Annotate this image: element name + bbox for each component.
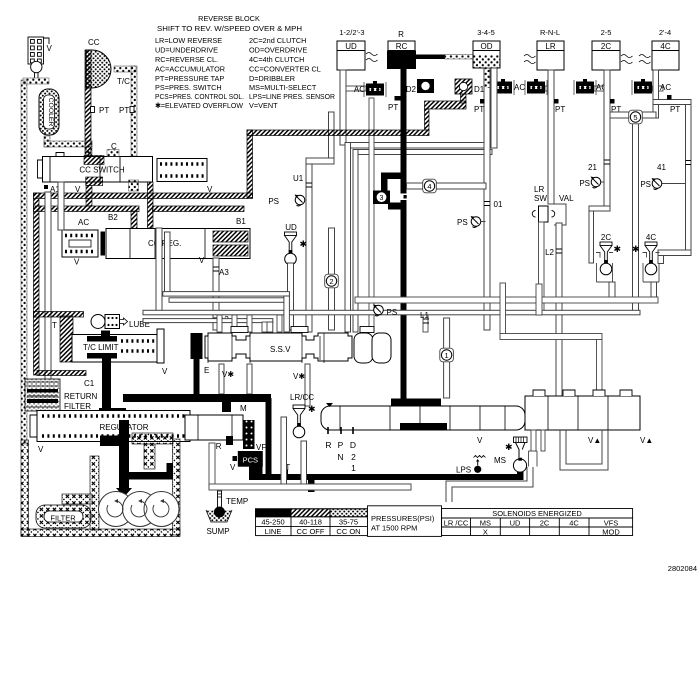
svg-text:FILTER: FILTER (64, 402, 91, 411)
svg-text:V: V (230, 463, 236, 472)
svg-text:PS=PRES. SWITCH: PS=PRES. SWITCH (155, 83, 222, 92)
svg-text:P: P (338, 440, 344, 450)
hatched rail B2 (131, 211, 137, 233)
pump (3 gerotors) (99, 492, 180, 527)
dotted line RC to OD (445, 55, 473, 60)
suction channel loop (x-dots) (21, 440, 29, 536)
hatched pieces at CC switch (84, 156, 104, 165)
wire stems to S.S.V (217, 315, 222, 332)
svg-text:PS: PS (640, 180, 651, 189)
manual valve (321, 403, 525, 434)
svg-text:5: 5 (633, 113, 637, 122)
thick main line bottom bar (249, 474, 523, 480)
svg-text:R: R (398, 30, 404, 39)
dribbler D1 (455, 79, 472, 94)
svg-text:V: V (207, 185, 213, 194)
svg-text:OD=OVERDRIVE: OD=OVERDRIVE (249, 46, 307, 55)
svg-text:V: V (74, 258, 80, 267)
sump SUMP (206, 510, 232, 522)
svg-text:2-5: 2-5 (601, 28, 612, 37)
svg-text:C1: C1 (84, 379, 95, 388)
return filter RETURN FILTER (25, 379, 60, 411)
svg-text:UD: UD (345, 42, 357, 51)
svg-text:CC OFF: CC OFF (297, 527, 325, 536)
valve CC SWITCH (38, 153, 208, 183)
svg-text:PS: PS (268, 197, 279, 206)
svg-text:PS: PS (457, 218, 468, 227)
svg-text:LR=LOW REVERSE: LR=LOW REVERSE (155, 36, 222, 45)
svg-text:45-250: 45-250 (261, 517, 284, 526)
svg-text:2C=2nd CLUTCH: 2C=2nd CLUTCH (249, 36, 306, 45)
hatched channel T/C limit frame (34, 312, 84, 318)
accumulator AC (4C) (632, 79, 654, 95)
svg-text:MS=MULTI-SELECT: MS=MULTI-SELECT (249, 83, 317, 92)
valve S.S.V (205, 327, 391, 364)
svg-text:✱: ✱ (614, 244, 622, 254)
svg-text:FILTER: FILTER (50, 514, 76, 523)
valve T/C LIMIT (72, 329, 164, 363)
valve rooster (right, castellated) (525, 390, 640, 430)
pressure switch PS (L1) (373, 305, 383, 316)
svg-text:PS: PS (387, 308, 398, 317)
svg-text:LR: LR (545, 42, 555, 51)
hatched left rail (34, 193, 40, 375)
pressure switch PS (41) (662, 183, 685, 185)
svg-text:V▲: V▲ (640, 436, 653, 445)
svg-text:LR/CC: LR/CC (290, 393, 314, 402)
solenoid M (222, 400, 231, 412)
svg-text:LR: LR (534, 185, 544, 194)
thermometer TEMP (214, 489, 248, 518)
channel 2C down (604, 70, 610, 207)
svg-text:PCS=PRES. CONTROL SOL.: PCS=PRES. CONTROL SOL. (155, 92, 244, 101)
wire channels right-mid (355, 297, 658, 303)
hatched channel main reverse rail (247, 130, 429, 136)
valve NR (185, 415, 243, 445)
circled 4 (407, 183, 424, 189)
svg-text:3-4-5: 3-4-5 (477, 28, 495, 37)
legend title REVERSE BLOCK (155, 14, 335, 110)
svg-text:VFS: VFS (604, 519, 619, 528)
U loop channel right (560, 430, 608, 470)
svg-text:D=DRIBBLER: D=DRIBBLER (249, 74, 295, 83)
svg-text:4C=4th CLUTCH: 4C=4th CLUTCH (249, 55, 304, 64)
svg-text:R-N-L: R-N-L (540, 28, 560, 37)
svg-text:R: R (325, 440, 331, 450)
pressure switch PS (21) (600, 181, 604, 183)
svg-text:PT: PT (474, 105, 484, 114)
svg-text:PCS: PCS (243, 456, 258, 465)
svg-text:SOLENOIDS ENERGIZED: SOLENOIDS ENERGIZED (492, 509, 582, 518)
orifice 5 link channel (610, 112, 656, 118)
channel UD down (340, 70, 346, 145)
svg-text:UD: UD (510, 519, 521, 528)
valve REGULATOR (30, 411, 190, 442)
svg-text:PT: PT (670, 105, 680, 114)
svg-text:D2: D2 (406, 85, 417, 94)
vent V top-left (28, 37, 49, 78)
circled 3 with thick loop (381, 173, 406, 180)
solenoid PCS (238, 451, 263, 467)
svg-text:UD: UD (285, 223, 297, 232)
svg-text:N: N (337, 452, 343, 462)
svg-text:V=VENT: V=VENT (249, 101, 278, 110)
svg-text:2C: 2C (601, 42, 611, 51)
hatched bar 2 (34, 206, 140, 212)
svg-text:40-118: 40-118 (299, 517, 322, 526)
svg-text:VF: VF (256, 443, 266, 452)
wire channels valve to MS (531, 430, 536, 451)
thick line C1 to pump (100, 436, 128, 447)
pressure switch PS (01) (481, 221, 486, 223)
channel 4C down (653, 70, 659, 118)
svg-text:AC: AC (78, 218, 89, 227)
hatched channel D1-D2 (461, 94, 467, 103)
valve CC REG (106, 229, 250, 259)
svg-text:RC: RC (396, 42, 408, 51)
accumulator glyph template (0, 0, 1, 1)
pressure tap PT (OD) (480, 99, 485, 104)
svg-text:T/C LIMIT: T/C LIMIT (83, 343, 119, 352)
svg-text:V✱: V✱ (222, 370, 234, 379)
middle bus channels (156, 228, 162, 314)
circled 1 (444, 318, 450, 349)
svg-text:RETURN: RETURN (64, 392, 98, 401)
svg-text:AC: AC (514, 83, 525, 92)
cooler line (dotted) from vent down (21, 80, 27, 444)
svg-text:PT: PT (99, 106, 109, 115)
table solenoids energized (442, 509, 633, 536)
svg-text:OD: OD (481, 42, 493, 51)
svg-text:2: 2 (329, 277, 333, 286)
svg-text:01: 01 (494, 200, 503, 209)
cooler outlet dotted channel (44, 136, 50, 147)
svg-text:L2: L2 (545, 248, 554, 257)
svg-text:MS: MS (480, 519, 491, 528)
svg-text:PT=PRESSURE TAP: PT=PRESSURE TAP (155, 74, 224, 83)
filter FILTER pod (36, 505, 91, 528)
svg-text:4C: 4C (569, 519, 579, 528)
svg-text:B1: B1 (236, 217, 246, 226)
svg-text:B2: B2 (108, 213, 118, 222)
svg-text:1: 1 (351, 463, 356, 473)
pressure switch PS (U1) (295, 195, 305, 206)
svg-text:V: V (199, 256, 205, 265)
svg-text:CC SWITCH: CC SWITCH (79, 166, 125, 175)
svg-text:V: V (162, 367, 168, 376)
pressure tap PT on RC line (395, 96, 401, 101)
svg-text:LPS=LINE PRES. SENSOR: LPS=LINE PRES. SENSOR (249, 92, 335, 101)
svg-text:COOLER: COOLER (47, 98, 54, 127)
svg-text:T/C: T/C (117, 77, 130, 86)
wire AC stubs (369, 98, 374, 332)
svg-text:CC: CC (88, 38, 100, 47)
pressure taps PT (91, 107, 95, 113)
thick line C1 (102, 358, 111, 410)
svg-text:SHIFT TO REV. W/SPEED OVER & M: SHIFT TO REV. W/SPEED OVER & MPH (157, 24, 302, 33)
svg-text:1: 1 (445, 351, 449, 360)
svg-text:U1: U1 (293, 174, 304, 183)
svg-text:M: M (240, 404, 247, 413)
svg-text:2: 2 (351, 452, 356, 462)
svg-text:RC=REVERSE CL.: RC=REVERSE CL. (155, 55, 218, 64)
svg-text:VAL: VAL (559, 194, 574, 203)
svg-text:4C: 4C (646, 233, 656, 242)
channel L2 (556, 223, 562, 400)
svg-text:PRESSURES(PSI): PRESSURES(PSI) (371, 514, 435, 523)
svg-text:V: V (47, 44, 53, 53)
svg-text:S.S.V: S.S.V (270, 345, 291, 354)
thick line RC down (401, 69, 407, 426)
accumulator AC (LR) (525, 79, 547, 95)
dotted channel from T/C to CC switch (114, 66, 136, 72)
svg-text:✱: ✱ (505, 442, 513, 452)
svg-text:TEMP: TEMP (226, 497, 248, 506)
svg-text:PT: PT (119, 106, 129, 115)
cooler (39, 89, 59, 135)
svg-text:PT: PT (388, 103, 398, 112)
svg-text:AC: AC (354, 85, 365, 94)
hatched channel T/C left rail (85, 50, 91, 156)
manual valve black connectors (391, 399, 441, 407)
svg-text:SW: SW (534, 194, 547, 203)
svg-text:D1: D1 (474, 85, 485, 94)
svg-text:✱: ✱ (632, 244, 640, 254)
channel U1 line (329, 112, 335, 158)
lube circuit LUBE (91, 315, 150, 330)
svg-text:MOD: MOD (602, 528, 620, 537)
svg-text:✱: ✱ (300, 239, 308, 249)
svg-text:V: V (38, 445, 44, 454)
svg-text:V: V (75, 185, 81, 194)
channel OD down (484, 68, 490, 330)
svg-text:T: T (52, 321, 57, 330)
svg-text:MS: MS (494, 456, 506, 465)
svg-text:41: 41 (657, 163, 666, 172)
svg-text:AC: AC (660, 83, 671, 92)
solenoid feed VF (243, 420, 255, 449)
accumulator AC (2C) (574, 79, 596, 95)
svg-text:PS: PS (579, 179, 590, 188)
svg-text:AC=ACCUMULATOR: AC=ACCUMULATOR (155, 65, 225, 74)
channel nested loops (345, 143, 492, 149)
svg-text:E: E (204, 366, 209, 375)
circled 2 (329, 228, 335, 330)
svg-text:PT: PT (555, 105, 565, 114)
svg-text:REVERSE BLOCK: REVERSE BLOCK (198, 14, 260, 23)
svg-text:UD=UNDERDRIVE: UD=UNDERDRIVE (155, 46, 218, 55)
svg-text:1-2/2'-3: 1-2/2'-3 (339, 28, 364, 37)
thick line E to regulator (123, 394, 271, 402)
svg-text:✱=ELEVATED OVERFLOW: ✱=ELEVATED OVERFLOW (155, 101, 243, 110)
accumulator AC (OD) (492, 79, 514, 95)
svg-text:V: V (477, 436, 483, 445)
svg-text:35-75: 35-75 (339, 517, 358, 526)
loop channel center (209, 443, 215, 488)
channel LR down (548, 70, 554, 204)
svg-text:A3: A3 (219, 268, 229, 277)
table pressures legend (256, 506, 442, 537)
svg-text:2C: 2C (601, 233, 611, 242)
svg-text:D: D (350, 440, 356, 450)
channel A3/A2 down from CC REG (213, 258, 219, 330)
svg-text:4C: 4C (660, 42, 670, 51)
solenoid E (black) (191, 333, 203, 359)
svg-text:X: X (483, 528, 488, 537)
svg-text:LPS: LPS (456, 466, 471, 475)
svg-text:V▲: V▲ (588, 436, 601, 445)
channel left A-rail (45, 192, 51, 380)
svg-text:V✱: V✱ (293, 372, 305, 381)
svg-text:21: 21 (588, 163, 597, 172)
svg-text:LR /CC: LR /CC (444, 519, 469, 528)
svg-text:CC ON: CC ON (336, 527, 360, 536)
svg-text:AT 1500 RPM: AT 1500 RPM (371, 524, 417, 533)
svg-text:LINE: LINE (265, 527, 282, 536)
svg-text:2802084: 2802084 (668, 564, 697, 573)
svg-text:2C: 2C (540, 519, 550, 528)
svg-text:2'-4: 2'-4 (659, 28, 671, 37)
svg-text:4: 4 (427, 182, 431, 191)
hatched rail mid (148, 182, 154, 228)
svg-text:3: 3 (380, 195, 384, 202)
svg-text:SUMP: SUMP (206, 527, 229, 536)
hatched bar 1 (34, 193, 253, 199)
svg-text:CC=CONVERTER CL: CC=CONVERTER CL (249, 65, 321, 74)
circled 5 (629, 110, 643, 124)
svg-text:✱: ✱ (308, 404, 316, 414)
